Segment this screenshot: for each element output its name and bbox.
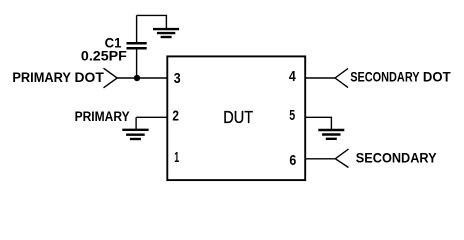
svg-text:SECONDARY: SECONDARY — [350, 70, 419, 85]
svg-text:1: 1 — [174, 150, 179, 166]
svg-text:PRIMARY: PRIMARY — [12, 70, 71, 85]
svg-text:DOT: DOT — [423, 70, 451, 85]
svg-text:3: 3 — [174, 71, 181, 87]
svg-text:0.25PF: 0.25PF — [81, 49, 127, 64]
svg-text:PRIMARY: PRIMARY — [75, 109, 130, 124]
svg-text:4: 4 — [289, 69, 296, 85]
svg-text:5: 5 — [289, 108, 295, 124]
svg-text:6: 6 — [289, 153, 296, 169]
svg-text:SECONDARY: SECONDARY — [356, 150, 437, 165]
svg-text:DUT: DUT — [223, 107, 253, 127]
svg-text:2: 2 — [172, 109, 179, 125]
svg-text:DOT: DOT — [75, 70, 105, 85]
